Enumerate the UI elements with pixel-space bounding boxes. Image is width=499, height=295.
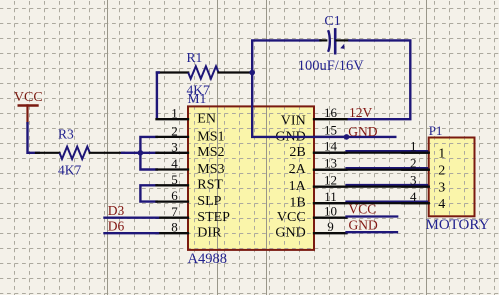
pin 16 VIN	[281, 105, 347, 129]
svg-text:R3: R3	[58, 127, 74, 142]
junction	[249, 70, 255, 76]
svg-text:MS1: MS1	[197, 129, 224, 144]
svg-text:3: 3	[410, 173, 417, 188]
pin 7 STEP	[157, 204, 231, 225]
power port VCC	[14, 90, 43, 123]
svg-text:D3: D3	[108, 203, 125, 218]
wire	[105, 216, 159, 218]
svg-text:4: 4	[410, 189, 417, 204]
wire	[347, 215, 398, 217]
wire	[347, 167, 428, 169]
capacitor C1	[298, 14, 365, 74]
svg-text:2A: 2A	[289, 162, 307, 177]
svg-text:VCC: VCC	[349, 202, 377, 217]
wire	[157, 73, 160, 120]
connector P1 border	[429, 138, 475, 217]
svg-text:MOTORY: MOTORY	[426, 217, 490, 233]
svg-text:VIN: VIN	[281, 114, 306, 129]
svg-text:5: 5	[171, 172, 178, 187]
svg-text:2B: 2B	[289, 145, 305, 160]
pin 12 1A	[289, 172, 347, 194]
wire	[314, 169, 429, 171]
svg-text:2: 2	[171, 123, 178, 138]
svg-text:GND: GND	[349, 218, 378, 233]
wire	[347, 231, 398, 233]
wire	[347, 184, 428, 186]
svg-text:1B: 1B	[289, 196, 305, 211]
svg-text:16: 16	[324, 105, 338, 120]
pin 9 GND	[275, 219, 346, 241]
svg-text:3: 3	[171, 139, 178, 154]
IC M1 A4988 body	[188, 106, 314, 250]
pin 3 of P1	[402, 173, 445, 196]
wire	[347, 150, 428, 152]
svg-text:STEP: STEP	[197, 210, 230, 225]
wire	[347, 40, 411, 119]
svg-text:MS2: MS2	[197, 145, 224, 160]
svg-text:R1: R1	[187, 50, 203, 65]
resistor R1	[157, 50, 252, 97]
svg-text:3: 3	[438, 181, 445, 196]
pin 13 2A	[289, 156, 347, 178]
pin 10 VCC	[277, 204, 347, 226]
svg-text:12: 12	[324, 172, 337, 187]
svg-text:15: 15	[324, 123, 337, 138]
wire	[314, 152, 429, 154]
wire	[314, 186, 429, 188]
wire	[140, 185, 158, 201]
pin 3 MS2	[157, 139, 225, 160]
svg-text:1: 1	[171, 106, 178, 121]
svg-text:11: 11	[324, 189, 337, 204]
wire	[252, 40, 396, 136]
wire	[28, 122, 41, 153]
svg-text:GND: GND	[348, 124, 377, 139]
pin 8 DIR	[157, 220, 223, 241]
pin 6 SLP	[157, 188, 222, 209]
pin 4 of P1	[402, 189, 445, 212]
svg-text:EN: EN	[197, 112, 216, 127]
pin 15 GND	[275, 123, 346, 145]
svg-text:SLP: SLP	[197, 194, 221, 209]
svg-text:RST: RST	[197, 178, 223, 193]
svg-text:1: 1	[410, 139, 417, 154]
svg-text:VCC: VCC	[277, 210, 306, 225]
svg-text:4: 4	[438, 197, 445, 212]
junction	[344, 134, 350, 140]
junction	[138, 150, 144, 156]
svg-text:6: 6	[171, 188, 178, 203]
svg-text:C1: C1	[324, 14, 340, 29]
svg-text:9: 9	[327, 219, 334, 234]
pin 1 EN	[157, 106, 216, 127]
svg-text:7: 7	[171, 204, 178, 219]
svg-text:2: 2	[410, 156, 417, 171]
wire	[105, 232, 159, 234]
IC M1 A4988 border	[188, 106, 314, 250]
svg-text:DIR: DIR	[197, 226, 222, 241]
pin 4 MS3	[157, 156, 225, 177]
svg-text:1: 1	[438, 147, 445, 162]
wire	[314, 202, 429, 204]
wire	[140, 137, 158, 170]
pin 2 MS1	[157, 123, 225, 144]
connector P1 body	[429, 138, 475, 217]
pin 11 1B	[289, 189, 346, 211]
svg-text:GND: GND	[275, 226, 305, 241]
svg-text:M1: M1	[188, 91, 207, 106]
pin 5 RST	[157, 172, 224, 193]
svg-text:13: 13	[324, 156, 337, 171]
pin 2 of P1	[402, 156, 445, 179]
svg-text:4K7: 4K7	[58, 162, 81, 177]
svg-text:A4988: A4988	[188, 251, 227, 267]
svg-text:VCC: VCC	[14, 90, 43, 105]
svg-text:D6: D6	[108, 218, 125, 233]
pin 14 2B	[289, 139, 346, 161]
svg-text:2: 2	[438, 164, 445, 179]
svg-text:P1: P1	[429, 123, 443, 138]
wire	[252, 39, 320, 41]
wire	[140, 152, 158, 154]
svg-text:100uF/16V: 100uF/16V	[298, 58, 365, 74]
svg-text:1A: 1A	[289, 179, 307, 194]
svg-text:14: 14	[324, 139, 338, 154]
wire	[347, 200, 428, 202]
svg-text:10: 10	[324, 204, 337, 219]
svg-text:8: 8	[171, 220, 178, 235]
pin 1 of P1	[402, 139, 445, 162]
wire	[122, 152, 140, 154]
svg-text:MS3: MS3	[197, 162, 224, 177]
svg-text:12V: 12V	[349, 105, 373, 120]
svg-text:4: 4	[171, 156, 178, 171]
resistor R3	[36, 127, 124, 178]
